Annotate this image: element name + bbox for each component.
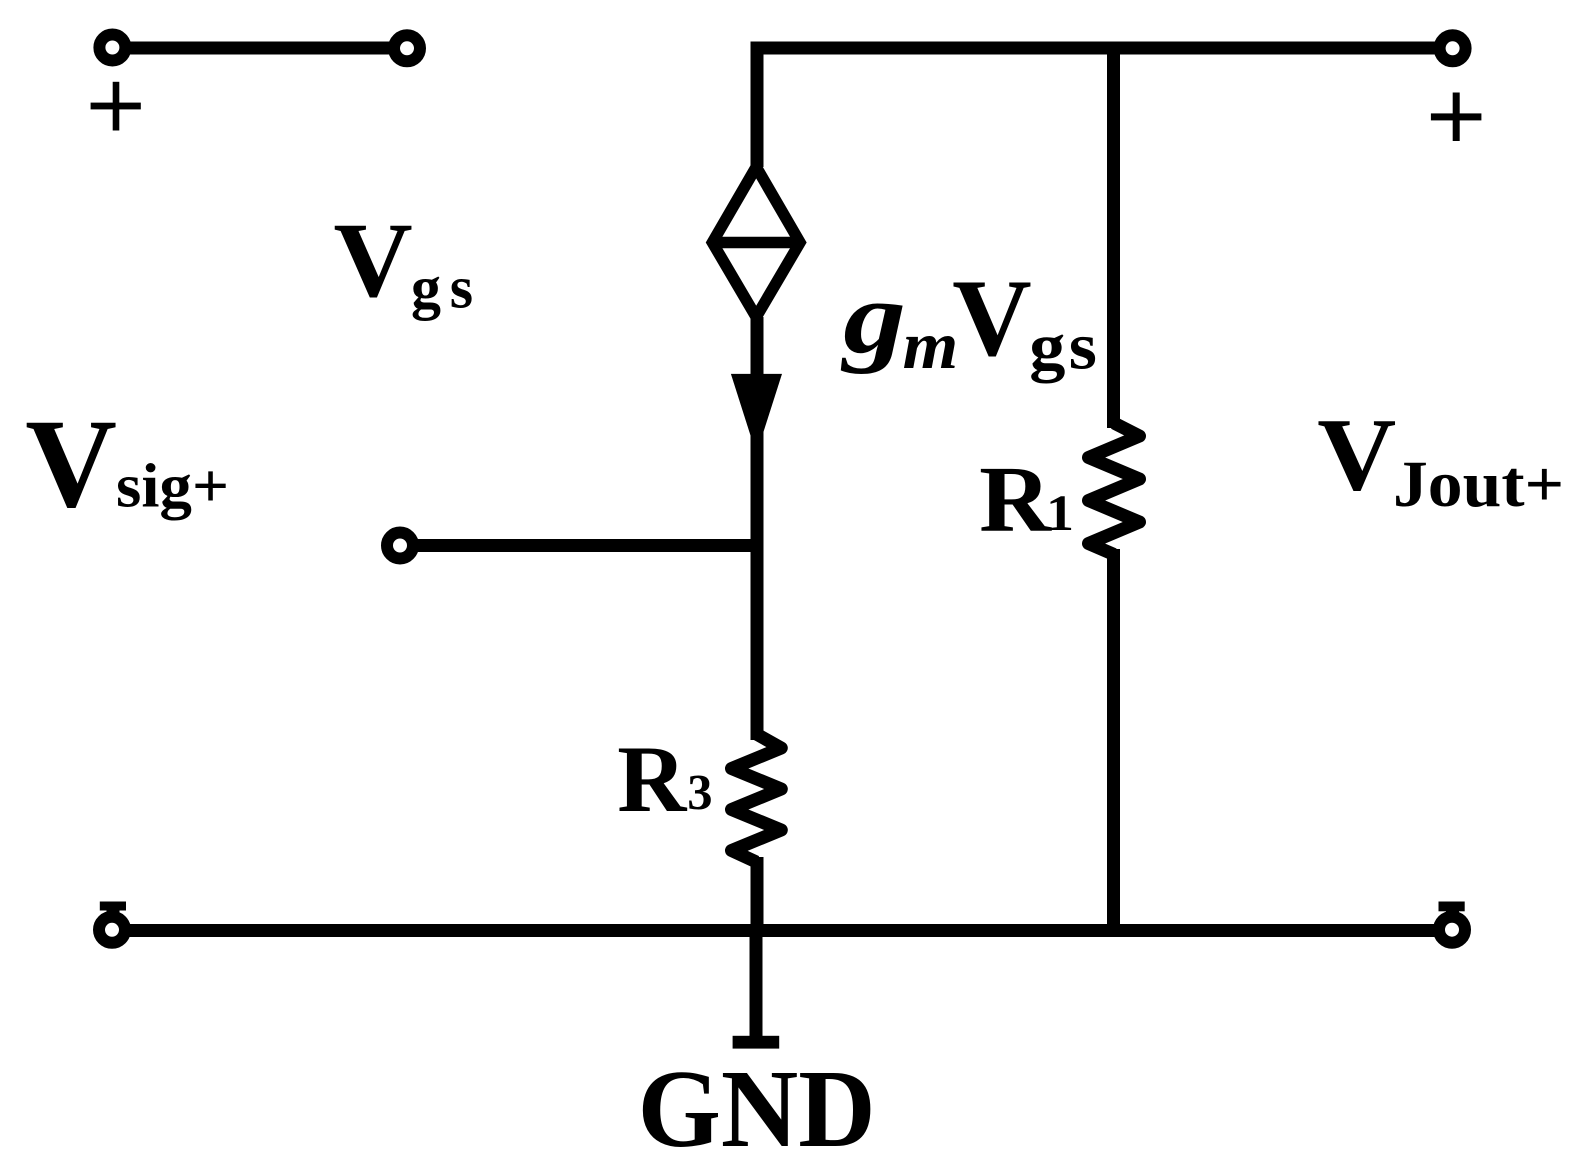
svg-text:GND: GND bbox=[638, 1047, 876, 1170]
svg-text:V: V bbox=[25, 394, 117, 534]
svg-text:gs: gs bbox=[1029, 310, 1100, 384]
svg-text:m: m bbox=[903, 309, 959, 384]
svg-text:Jout+: Jout+ bbox=[1393, 447, 1564, 520]
svg-text:R: R bbox=[617, 726, 687, 832]
svg-text:R: R bbox=[979, 447, 1052, 551]
svg-text:V: V bbox=[1317, 398, 1396, 513]
svg-text:g: g bbox=[840, 261, 906, 375]
svg-text:sig+: sig+ bbox=[116, 451, 229, 520]
svg-text:V: V bbox=[952, 257, 1031, 379]
svg-text:V: V bbox=[334, 201, 413, 320]
svg-text:3: 3 bbox=[687, 765, 712, 821]
svg-text:gs: gs bbox=[411, 255, 482, 321]
svg-text:1: 1 bbox=[1046, 485, 1074, 542]
